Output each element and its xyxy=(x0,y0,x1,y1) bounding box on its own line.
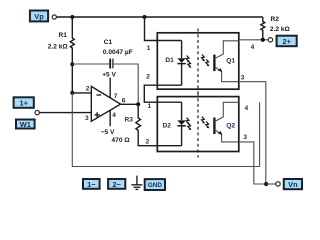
wire C1 left lead xyxy=(72,63,110,65)
svg-text:2.2 kΩ: 2.2 kΩ xyxy=(270,26,291,33)
resistor R3 xyxy=(112,104,158,145)
wire W1 to non-inverting input xyxy=(40,112,92,114)
wire inverting node to Q2 collector (feedback) xyxy=(72,93,259,167)
svg-text:2.2 kΩ: 2.2 kΩ xyxy=(48,44,69,51)
wire C1 to output node xyxy=(113,64,138,104)
transistor Q2 xyxy=(214,102,238,142)
optocoupler U2 box xyxy=(157,33,239,89)
svg-text:2−: 2− xyxy=(112,180,121,189)
terminal W1 xyxy=(16,110,39,129)
terminal Vn xyxy=(276,179,302,189)
dashed isolation line U3 xyxy=(197,93,199,158)
svg-text:3: 3 xyxy=(243,134,247,141)
wire D2 cathode to R3 xyxy=(157,145,181,147)
svg-text:Q1: Q1 xyxy=(226,57,235,64)
svg-text:7: 7 xyxy=(114,93,118,100)
node R2 / pin4 xyxy=(261,38,265,42)
wire R1 to inverting input xyxy=(71,64,73,93)
wire top rail xyxy=(56,16,262,18)
diode D2 (LED) xyxy=(163,102,186,146)
wire op-amp +5V pin 7 stub xyxy=(109,78,111,98)
svg-text:R3: R3 xyxy=(125,117,134,124)
svg-text:3: 3 xyxy=(85,115,89,122)
svg-text:C1: C1 xyxy=(104,39,113,46)
svg-text:4: 4 xyxy=(112,112,116,119)
svg-text:Vn: Vn xyxy=(288,180,298,189)
svg-text:R2: R2 xyxy=(271,16,280,23)
svg-text:R1: R1 xyxy=(58,32,67,39)
svg-text:Q2: Q2 xyxy=(226,122,235,129)
terminal 2+ xyxy=(268,36,297,47)
transistor Q1 xyxy=(214,41,238,82)
svg-text:3: 3 xyxy=(241,75,245,82)
svg-text:2+: 2+ xyxy=(282,37,291,46)
node inverting input xyxy=(70,91,74,95)
ground xyxy=(131,176,142,190)
terminal 1+ xyxy=(14,97,34,108)
wire op-amp -5V pin 4 stub xyxy=(109,110,111,126)
svg-text:+5 V: +5 V xyxy=(102,72,116,79)
wire opto1 pin1 from top rail xyxy=(145,17,182,41)
capacitor C1 xyxy=(103,39,133,69)
light arrows D1 xyxy=(186,56,191,68)
node R1 / C1 xyxy=(70,62,74,66)
dashed isolation line U2 xyxy=(197,29,199,94)
svg-text:2: 2 xyxy=(86,86,90,93)
wire op-amp output xyxy=(121,103,139,105)
wire Q2 emitter to Vn node xyxy=(239,142,266,184)
resistor R2 xyxy=(261,16,291,40)
terminal 1- xyxy=(83,179,100,189)
diode D1 (LED) xyxy=(165,41,185,86)
svg-text:D1: D1 xyxy=(165,57,174,64)
node Vn xyxy=(264,182,268,186)
svg-text:W1: W1 xyxy=(20,120,31,129)
svg-text:2: 2 xyxy=(146,74,150,81)
node output xyxy=(136,102,140,106)
light arrows Q2 xyxy=(201,117,209,129)
svg-text:−5 V: −5 V xyxy=(101,129,115,136)
svg-text:470 Ω: 470 Ω xyxy=(112,137,131,144)
svg-text:Vp: Vp xyxy=(34,12,44,21)
node top rail / opto1 pin 1 xyxy=(143,15,147,19)
svg-text:4: 4 xyxy=(245,105,249,112)
svg-text:0.0047 µF: 0.0047 µF xyxy=(103,49,133,56)
terminal 2- xyxy=(108,179,125,189)
terminal Vp xyxy=(30,11,57,22)
wire inverting input to pin 2 xyxy=(72,92,91,94)
op-amp U1 xyxy=(85,86,126,123)
light arrows D2 xyxy=(186,118,191,130)
node top rail / R1 xyxy=(70,15,74,19)
wire opto2 pin1 inside xyxy=(157,101,181,103)
svg-text:1: 1 xyxy=(147,45,151,52)
svg-text:1: 1 xyxy=(148,103,152,110)
resistor R1 xyxy=(48,17,75,64)
svg-text:1+: 1+ xyxy=(19,98,28,107)
wire node to Vn terminal xyxy=(266,183,275,185)
svg-text:2: 2 xyxy=(146,139,150,146)
light arrows Q1 xyxy=(201,55,209,67)
svg-text:4: 4 xyxy=(251,44,255,51)
wire Q1 emitter to Vn node xyxy=(239,82,266,184)
wire D1 cathode to opto2 pin1 xyxy=(144,85,181,102)
terminal GND xyxy=(145,179,165,190)
optocoupler U3 box xyxy=(157,97,239,152)
wire opto1 pin 4 to junction xyxy=(239,39,268,41)
svg-text:GND: GND xyxy=(148,182,162,189)
svg-text:1−: 1− xyxy=(87,180,96,189)
svg-text:D2: D2 xyxy=(163,123,172,130)
